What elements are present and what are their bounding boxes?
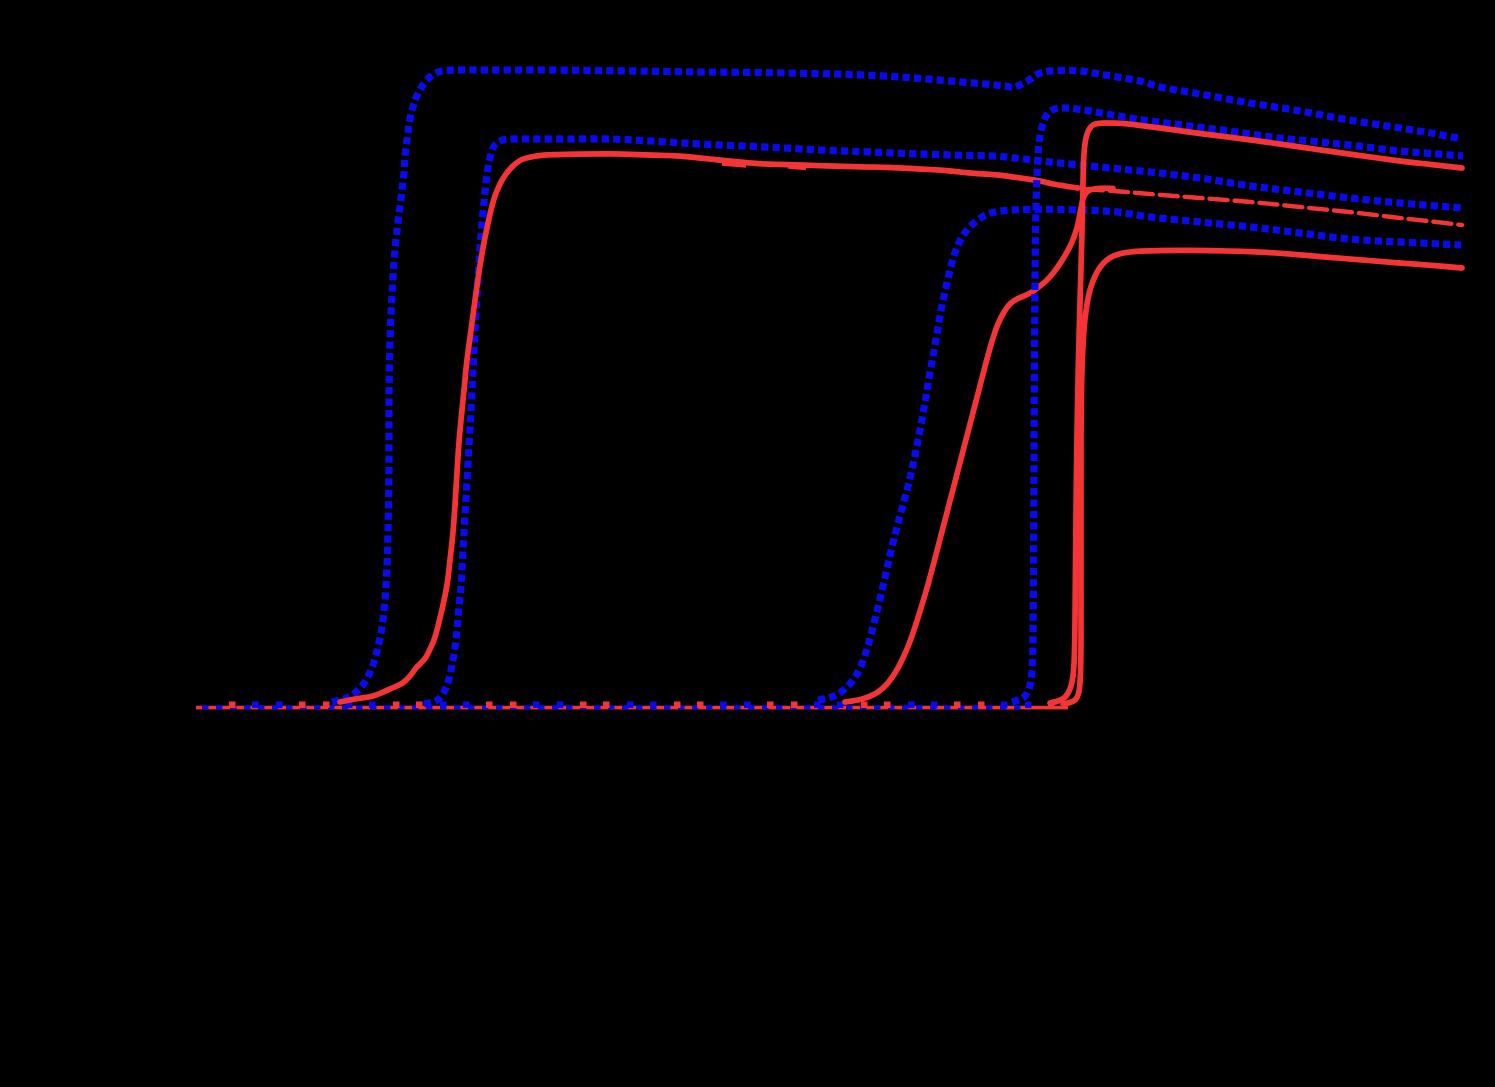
curve R1 red solid left — [340, 154, 1078, 702]
curve B4 blue dotted steep — [1012, 108, 1463, 702]
curve R2 red solid sigmoid — [845, 188, 1113, 702]
curve R1 dashed continuation — [1085, 189, 1462, 225]
curve B2 blue dotted second — [424, 139, 1463, 704]
curve B1 blue dotted leftmost — [332, 70, 1462, 702]
baseline red continuous — [196, 706, 1068, 710]
baseline blips — [229, 702, 236, 709]
curve R4 red solid steep lower — [1063, 250, 1462, 704]
baseline blue dotted — [199, 705, 1028, 709]
curve B3 blue dotted third — [818, 209, 1461, 700]
R1 notch artifacts — [722, 164, 746, 166]
curve R3 red solid steep — [1050, 123, 1462, 703]
